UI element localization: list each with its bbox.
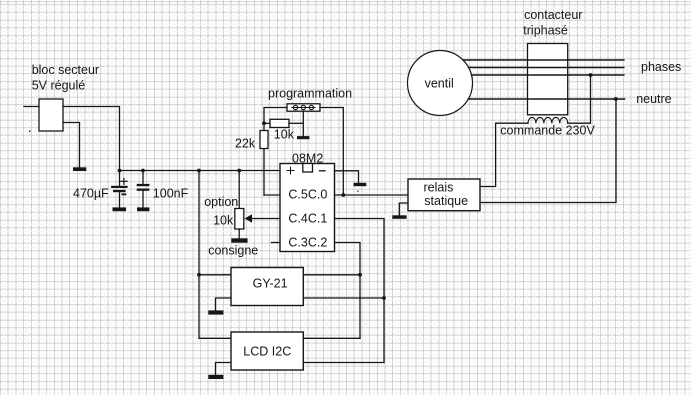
node SCL — [358, 273, 362, 277]
motor M ventil — [408, 51, 473, 116]
relais statique box — [408, 179, 480, 211]
node bus-pot — [237, 169, 241, 173]
svg-text:commande 230V: commande 230V — [500, 124, 595, 138]
ground C2 — [137, 207, 149, 211]
wire relais to coil — [480, 123, 528, 186]
label bloc secteur / 5V regule — [32, 63, 99, 92]
wire GY ground stub — [216, 298, 232, 310]
IC U1 PICAXE 08M2 — [280, 164, 335, 252]
wire 5V bus — [120, 170, 281, 172]
ground header — [297, 136, 309, 139]
svg-text:bloc secteur: bloc secteur — [32, 63, 99, 77]
wire neutre — [468, 98, 624, 100]
wire GY right top to SCL — [303, 274, 360, 276]
LCD I2C box — [231, 332, 303, 370]
wire R2 left lead — [264, 122, 270, 124]
svg-text:100nF: 100nF — [153, 187, 189, 201]
connector J1 programming header — [287, 104, 320, 111]
wire serial-in to C.5 pin — [264, 194, 280, 196]
svg-text:programmation: programmation — [268, 87, 352, 101]
stray mark — [29, 131, 31, 133]
potentiometer RV1 10k — [235, 209, 244, 230]
wire phase 1 — [463, 59, 624, 61]
node GY power — [197, 273, 201, 277]
ground U1 — [354, 183, 367, 186]
wire LCD ground stub — [216, 363, 232, 375]
node bus-C1 — [118, 169, 122, 173]
power block U-REG — [39, 99, 63, 131]
wire phase 2 — [469, 67, 624, 69]
wire pot wiper to C.4 — [252, 218, 280, 220]
wire to GY-21 left — [199, 274, 231, 276]
wire LCD right top — [303, 337, 360, 339]
wire relais ground stub — [399, 203, 408, 215]
wire R2 right lead — [289, 122, 303, 124]
wire C.2 to I2C SCL — [335, 243, 361, 339]
ground relais — [392, 215, 406, 219]
svg-text:ventil: ventil — [425, 77, 454, 91]
wire header middle pin down — [302, 111, 304, 136]
svg-text:C.3C.2: C.3C.2 — [288, 236, 327, 250]
GY-21 box — [231, 268, 303, 306]
terminal bar consigne — [231, 238, 247, 242]
svg-text:5V régulé: 5V régulé — [32, 78, 86, 92]
wire bus to potentiometer — [238, 171, 240, 209]
wire I2C left vertical — [199, 171, 231, 339]
wire pot bottom — [238, 229, 240, 238]
wire GY right bottom to SDA — [303, 297, 384, 299]
wire bloc output to bus — [63, 107, 120, 171]
svg-text:GY-21: GY-21 — [253, 277, 288, 291]
notch U1 — [303, 164, 313, 173]
svg-text:LCD I2C: LCD I2C — [243, 344, 291, 358]
svg-text:neutre: neutre — [636, 92, 671, 106]
pin - U1 — [320, 170, 326, 172]
arrow pot wiper — [245, 214, 252, 223]
node serial-in / R 10k — [262, 121, 266, 125]
wire C.0 to relais — [335, 194, 409, 196]
wire C.3 stub — [272, 242, 281, 244]
label contacteur triphase — [523, 8, 582, 37]
node phase3 tap — [589, 73, 593, 77]
wire header left to serial-in net — [264, 108, 287, 196]
pin + U1 — [287, 167, 294, 174]
svg-text:phases: phases — [641, 60, 681, 74]
ground LCD — [208, 375, 223, 379]
svg-text:contacteur: contacteur — [524, 8, 582, 22]
svg-text:option: option — [204, 195, 238, 209]
wire C.1 to LCD SDA — [335, 219, 385, 363]
wire header right to C.5 node — [320, 108, 343, 196]
wire U1 minus to ground — [335, 171, 359, 183]
svg-text:470µF: 470µF — [73, 186, 109, 200]
capacitor C1 470uF — [111, 171, 128, 208]
wire LCD right bottom — [303, 362, 384, 364]
wire coil right to phase3 — [568, 75, 591, 123]
node bus-C2 — [141, 169, 145, 173]
ground bloc secteur — [73, 167, 86, 171]
node bus-GY — [197, 169, 201, 173]
svg-text:C.4C.1: C.4C.1 — [288, 211, 327, 225]
node C.0/header — [341, 193, 345, 197]
node SDA — [382, 296, 386, 300]
svg-text:consigne: consigne — [208, 243, 258, 257]
svg-text:triphasé: triphasé — [523, 23, 568, 37]
wire relais to neutre — [480, 99, 616, 203]
svg-text:10k: 10k — [274, 128, 295, 142]
svg-text:10k: 10k — [213, 214, 234, 228]
wire phase 3 — [472, 74, 624, 76]
svg-text:relais: relais — [424, 180, 454, 194]
svg-text:22k: 22k — [235, 137, 256, 151]
label relais statique — [424, 180, 469, 208]
stray mark 2 — [357, 191, 358, 192]
ground C1 — [113, 207, 127, 211]
node neutre tap — [614, 97, 618, 101]
resistor R2 10k — [270, 119, 289, 127]
svg-text:statique: statique — [424, 194, 468, 208]
coil K1 — [528, 117, 568, 123]
wire bloc left input — [24, 106, 39, 108]
capacitor C2 100nF — [137, 171, 150, 208]
contactor K1 box — [528, 44, 568, 115]
svg-text:C.5C.0: C.5C.0 — [288, 187, 327, 201]
wire bloc to ground — [63, 123, 80, 168]
ground GY-21 — [208, 310, 223, 314]
resistor R1 22k — [260, 131, 268, 149]
